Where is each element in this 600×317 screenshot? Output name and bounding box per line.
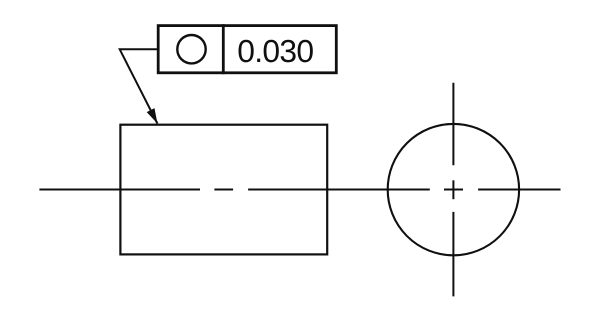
feature control frame border [158,26,336,73]
svg-text:0.030: 0.030 [237,33,313,69]
circle (cylinder end view) [388,124,519,255]
wire (horizontal centerline segment 2) [248,189,430,191]
wire (vertical centerline segment 1) [452,83,454,166]
wire (center cross horizontal dash) [444,189,463,191]
circularity symbol [177,35,205,63]
feature control frame divider [222,24,225,74]
leader line [120,49,159,123]
part outline (cylinder side view) [120,125,327,255]
wire (vertical centerline segment 2) [452,212,454,297]
wire (horizontal centerline segment 3) [478,189,560,191]
wire (center cross vertical dash) [452,180,454,199]
wire (horizontal centerline short dash) [214,189,233,191]
leader arrowhead [147,108,158,123]
wire (horizontal centerline segment 1) [39,189,200,191]
